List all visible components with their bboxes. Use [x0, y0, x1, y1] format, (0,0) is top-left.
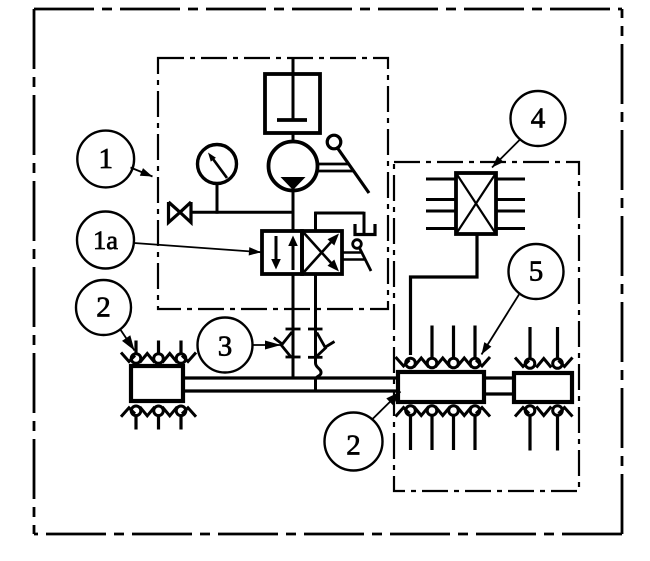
feed unit: top rollers: [406, 358, 416, 368]
wire: main pressure line: [191, 211, 293, 214]
directional valve DV1 right position box: [302, 231, 342, 274]
drill head: top rollers: [528, 327, 531, 360]
DV1 crossed-flow arrow up-right: [304, 241, 332, 272]
balloon 1a: [77, 212, 134, 269]
directional valve DV1 left position box: [262, 231, 302, 274]
balloon 4: [511, 91, 566, 146]
balloon 5: [509, 244, 564, 299]
wire: coupling shaft lower: [484, 392, 514, 395]
bleed valve B1 bottom seat tick: [286, 356, 301, 359]
pump outlet triangle: [281, 177, 306, 190]
motor M1 body with cross: [456, 173, 496, 234]
reservoir tank T1: [265, 74, 320, 133]
DV1 up-flow arrow: [292, 245, 295, 270]
feed unit: bottom rollers: [409, 414, 412, 450]
wire: pipe run 2: [183, 389, 398, 392]
outer chain border: [34, 8, 622, 11]
manual lever of DV1: lower link: [342, 258, 365, 261]
pressure gauge G1: [198, 145, 237, 184]
subsystem box 1 (power unit enclosure): [158, 58, 388, 309]
balloon 2b: [325, 413, 383, 471]
svg-text:2: 2: [96, 292, 111, 324]
bleed valve B2 bottom seat tick: [308, 356, 323, 359]
balloon 3: [198, 318, 253, 373]
manual lever of DV1: upper link: [342, 251, 361, 254]
bleed valve B1 stem tick: [274, 338, 282, 344]
wire: DV1 port A down line: [292, 274, 295, 378]
leader arrow of balloon 1a: [134, 243, 261, 252]
gauge needle: [213, 159, 227, 178]
manual lever of DV1: handle diagonal: [360, 248, 372, 271]
motor M1 left terminal lines: [426, 178, 456, 181]
manual lever of pump: pivot circle: [327, 135, 341, 149]
bleed valve B1 poppet V: [281, 332, 292, 357]
wire: DV1 port B down line with crossover hop: [316, 274, 322, 391]
wire: pump outlet down to valve: [292, 190, 295, 231]
svg-text:1a: 1a: [93, 225, 118, 255]
manual lever of pump: handle diagonal: [338, 148, 370, 193]
manual lever of pump: upper link: [317, 163, 349, 166]
svg-text:2: 2: [346, 430, 361, 462]
wire: drain drop into drain tank: [363, 212, 366, 233]
DV1 crossed-flow arrow down-right: [304, 233, 332, 264]
svg-text:5: 5: [529, 256, 544, 288]
shut-off valve V1 (bowtie): [169, 202, 181, 223]
pump P1 (circle): [269, 142, 318, 191]
bleed valve B1 top seat tick: [286, 328, 301, 331]
wire: tank to pump: [292, 133, 295, 142]
manual lever of DV1: pivot circle: [353, 240, 362, 249]
svg-text:1: 1: [98, 143, 113, 175]
tank internal baffle plate: [277, 118, 307, 122]
balloon 2: [76, 280, 131, 335]
slide unit body (left): [131, 366, 183, 401]
leader arrow of balloon 4: [492, 140, 520, 168]
wire: gauge stem: [216, 184, 219, 214]
balloon 1: [77, 131, 134, 188]
wire: drain horizontal run: [315, 212, 365, 215]
leader arrow of balloon 2 (lower): [372, 392, 401, 421]
wire: DV1 drain riser: [314, 212, 317, 231]
bleed valve B2 poppet V: [317, 333, 326, 357]
bleed valve B2 stem tick: [326, 342, 335, 348]
DV1 down-flow arrow: [275, 236, 278, 261]
slide unit left: bottom rollers: [134, 414, 137, 429]
bleed valve B2 top seat tick: [308, 328, 323, 331]
drain tank (open reservoir): [355, 224, 375, 235]
motor M1 right terminal lines: [496, 178, 525, 181]
manual lever of pump: lower link: [317, 170, 354, 173]
wire: elbow from motor to feed unit: [411, 234, 478, 355]
leader arrow of balloon 5: [482, 295, 520, 355]
leader arrow of balloon 1: [131, 168, 153, 177]
wire: suction pipe into tank: [292, 58, 295, 120]
drill head: bottom rollers: [528, 414, 531, 451]
wire: coupling shaft upper: [484, 376, 514, 379]
wire: pipe run 1: [183, 376, 398, 379]
slide unit left: top rollers: [134, 341, 137, 356]
leader arrow of balloon 3: [253, 344, 282, 346]
feed unit body (item 2 right): [398, 372, 484, 402]
svg-text:3: 3: [218, 331, 233, 363]
subsystem box 2 (feed unit enclosure): [394, 162, 579, 491]
svg-text:4: 4: [531, 103, 546, 135]
leader arrow of balloon 2: [120, 329, 135, 351]
drill head body (item 5): [514, 373, 572, 402]
